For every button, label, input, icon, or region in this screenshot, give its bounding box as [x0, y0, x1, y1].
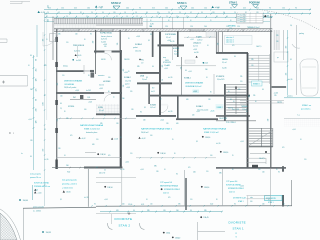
svg-text:3,1 m2: 3,1 m2 [222, 62, 227, 64]
svg-text:120: 120 [131, 109, 134, 111]
svg-text:90: 90 [234, 203, 236, 205]
svg-text:8,5: 8,5 [60, 199, 62, 201]
svg-text:16: 16 [176, 16, 178, 18]
svg-text:16: 16 [146, 199, 148, 201]
svg-text:35: 35 [96, 16, 98, 18]
svg-text:90: 90 [157, 12, 159, 14]
svg-text:8,5: 8,5 [148, 40, 150, 42]
svg-text:134,50: 134,50 [107, 187, 112, 189]
svg-text:120: 120 [190, 26, 193, 28]
svg-text:120: 120 [166, 123, 169, 125]
svg-text:420: 420 [176, 123, 179, 125]
svg-text:3,20 m2: 3,20 m2 [74, 50, 80, 52]
svg-text:16: 16 [135, 12, 137, 14]
svg-text:24: 24 [146, 12, 148, 14]
svg-text:240: 240 [30, 89, 33, 91]
svg-text:240: 240 [217, 43, 219, 46]
svg-text:385: 385 [66, 118, 69, 120]
svg-text:90: 90 [152, 66, 154, 68]
svg-text:90: 90 [94, 203, 96, 205]
svg-text:120: 120 [116, 123, 119, 125]
svg-text:16: 16 [206, 77, 208, 79]
svg-text:120: 120 [30, 140, 33, 142]
svg-text:smocnica: smocnica [98, 75, 105, 77]
svg-text:h=2,65: h=2,65 [222, 68, 227, 70]
svg-text:90: 90 [30, 156, 32, 158]
svg-text:240: 240 [258, 169, 261, 171]
svg-text:120: 120 [58, 148, 61, 150]
svg-text:STAN 1 na: STAN 1 na [302, 104, 312, 107]
svg-text:90: 90 [69, 12, 71, 14]
svg-text:90: 90 [228, 91, 230, 93]
svg-text:240: 240 [36, 109, 38, 112]
svg-text:425: 425 [243, 8, 246, 10]
svg-text:12,4 m2: 12,4 m2 [242, 109, 248, 111]
svg-text:90: 90 [150, 20, 152, 22]
svg-text:+0,05: +0,05 [164, 68, 168, 70]
svg-text:kota gotovog poda: kota gotovog poda [62, 179, 77, 182]
svg-text:+2,88: +2,88 [268, 16, 272, 18]
svg-text:PS: PS [150, 34, 152, 36]
svg-text:120: 120 [206, 171, 209, 173]
svg-text:SOBA 2: SOBA 2 [196, 105, 203, 108]
svg-text:240: 240 [66, 165, 69, 167]
svg-text:HODNIK: HODNIK [103, 81, 111, 83]
svg-text:90: 90 [100, 8, 102, 10]
svg-text:24: 24 [234, 12, 236, 14]
svg-text:8,5: 8,5 [44, 129, 46, 131]
svg-text:90: 90 [120, 137, 122, 139]
svg-text:STAN 3: STAN 3 [253, 83, 259, 86]
svg-text:385: 385 [219, 173, 222, 175]
svg-text:134,40: 134,40 [175, 237, 180, 239]
svg-text:134,50: 134,50 [160, 153, 165, 155]
svg-text:+0,45: +0,45 [274, 93, 279, 95]
svg-text:4,25: 4,25 [141, 204, 144, 206]
svg-text:24,60 m2: 24,60 m2 [141, 132, 149, 134]
svg-text:134,45: 134,45 [203, 217, 208, 219]
svg-text:42: 42 [190, 12, 192, 14]
svg-text:240/120: 240/120 [124, 59, 130, 61]
svg-text:420: 420 [186, 99, 189, 101]
svg-text:425: 425 [123, 69, 125, 72]
svg-text:DVORISTE: DVORISTE [229, 221, 246, 225]
svg-text:435: 435 [43, 39, 45, 42]
svg-text:4,60 m2: 4,60 m2 [229, 191, 235, 193]
svg-text:90: 90 [102, 12, 104, 14]
svg-text:235: 235 [240, 76, 243, 78]
svg-text:120: 120 [156, 171, 159, 173]
svg-text:120: 120 [208, 99, 211, 101]
svg-text:+0,05: +0,05 [193, 49, 197, 51]
svg-text:+0,05: +0,05 [140, 169, 144, 171]
svg-text:16: 16 [126, 16, 128, 18]
svg-text:KUPA.: KUPA. [98, 106, 103, 109]
svg-text:KUPAONICA: KUPAONICA [100, 32, 112, 35]
svg-text:134,50: 134,50 [205, 137, 210, 139]
svg-text:35: 35 [196, 16, 198, 18]
svg-text:90: 90 [64, 111, 66, 113]
svg-text:120: 120 [238, 89, 241, 91]
svg-text:HODNIK: HODNIK [173, 48, 180, 50]
svg-text:24: 24 [166, 16, 168, 18]
svg-text:134,35: 134,35 [46, 232, 51, 234]
svg-text:STAN 2: STAN 2 [111, 1, 121, 5]
svg-text:120: 120 [117, 43, 119, 46]
svg-text:90: 90 [223, 12, 225, 14]
svg-text:h=2,65: h=2,65 [174, 54, 179, 56]
svg-text:24: 24 [156, 16, 158, 18]
svg-text:h=2,65: h=2,65 [168, 77, 173, 79]
svg-text:betonske ploce: betonske ploce [86, 131, 97, 134]
svg-text:240: 240 [204, 26, 207, 28]
svg-text:STUBISTE: STUBISTE [163, 62, 171, 64]
svg-text:PRIZEMLJA 265 cm: PRIZEMLJA 265 cm [34, 185, 51, 188]
svg-text:90: 90 [108, 91, 110, 93]
svg-text:120: 120 [212, 12, 215, 14]
svg-text:ulaz: ulaz [250, 197, 253, 199]
svg-text:240: 240 [149, 26, 152, 28]
svg-text:420: 420 [122, 203, 125, 205]
svg-text:+0,05: +0,05 [188, 71, 192, 73]
svg-text:4,2 m2: 4,2 m2 [193, 46, 198, 48]
svg-text:26,80 m2 parket: 26,80 m2 parket [64, 86, 77, 89]
svg-text:90: 90 [30, 55, 32, 57]
svg-text:90: 90 [36, 99, 38, 101]
svg-text:k.c. 1325/2: k.c. 1325/2 [33, 210, 41, 212]
svg-text:134,40: 134,40 [23, 200, 28, 202]
svg-text:425: 425 [74, 8, 77, 10]
svg-text:+0,05: +0,05 [104, 199, 108, 201]
svg-text:90: 90 [60, 103, 62, 105]
svg-text:120: 120 [150, 203, 153, 205]
svg-text:+0,02: +0,02 [141, 138, 145, 140]
svg-text:16: 16 [233, 101, 235, 103]
svg-text:PODRUM: PODRUM [249, 1, 260, 4]
svg-text:120: 120 [282, 8, 285, 10]
svg-text:SPREM.: SPREM. [68, 106, 75, 108]
svg-text:10,2 m2: 10,2 m2 [150, 107, 156, 109]
svg-text:235: 235 [274, 95, 277, 97]
svg-text:16x17,5/28: 16x17,5/28 [232, 109, 239, 111]
svg-text:h=2,65: h=2,65 [84, 197, 89, 199]
svg-text:120: 120 [113, 12, 116, 14]
svg-text:420: 420 [116, 210, 119, 212]
svg-text:+0,05: +0,05 [28, 119, 32, 121]
svg-text:SPREMISTE STAN 2: SPREMISTE STAN 2 [164, 188, 180, 191]
svg-text:90: 90 [217, 8, 219, 10]
svg-text:90: 90 [230, 99, 232, 101]
svg-text:240: 240 [165, 8, 168, 10]
svg-text:120: 120 [237, 26, 240, 28]
svg-text:h=2,1: h=2,1 [151, 91, 155, 93]
svg-text:420 x 90: 420 x 90 [99, 172, 105, 174]
svg-text:+0,02: +0,02 [114, 139, 118, 141]
svg-text:134,4: 134,4 [166, 233, 170, 235]
svg-text:2,4 m2: 2,4 m2 [142, 79, 147, 81]
svg-text:STAN 2 24,60 m2: STAN 2 24,60 m2 [84, 128, 101, 131]
svg-text:120: 120 [123, 85, 125, 88]
svg-text:STAN 1: STAN 1 [229, 1, 238, 4]
svg-text:35: 35 [104, 115, 106, 117]
svg-text:12: 12 [186, 16, 188, 18]
svg-text:240: 240 [262, 203, 265, 205]
svg-text:5,0: 5,0 [290, 25, 292, 27]
svg-text:+0,00: +0,00 [37, 192, 41, 194]
svg-text:24: 24 [47, 12, 49, 14]
svg-text:35: 35 [268, 199, 270, 201]
svg-text:120: 120 [204, 8, 207, 10]
svg-text:90/120: 90/120 [101, 59, 106, 61]
svg-text:STAN 1 24,6 m2: STAN 1 24,6 m2 [204, 131, 220, 134]
svg-text:= 134,55 mnm: = 134,55 mnm [62, 187, 73, 189]
svg-text:90: 90 [295, 8, 297, 10]
svg-text:8,5: 8,5 [146, 77, 148, 79]
svg-text:90: 90 [210, 92, 212, 94]
svg-text:35: 35 [128, 71, 130, 73]
svg-text:5,6 m2: 5,6 m2 [99, 85, 104, 87]
svg-text:STUBISTE: STUBISTE [216, 76, 225, 78]
svg-text:425: 425 [70, 135, 73, 137]
svg-text:240: 240 [193, 172, 196, 174]
svg-text:425: 425 [108, 155, 111, 157]
svg-text:prozora 90 cm: prozora 90 cm [30, 176, 41, 179]
svg-text:90: 90 [255, 101, 257, 103]
svg-text:240: 240 [176, 210, 179, 212]
svg-text:24: 24 [179, 12, 181, 14]
svg-text:SOBA 1: SOBA 1 [196, 36, 202, 39]
svg-text:+0,05: +0,05 [99, 88, 103, 90]
svg-text:24: 24 [168, 12, 170, 14]
svg-text:30/30: 30/30 [165, 60, 169, 62]
svg-text:425: 425 [168, 197, 171, 199]
svg-text:90: 90 [176, 173, 178, 175]
svg-text:11,8 m2: 11,8 m2 [197, 40, 202, 42]
svg-text:120: 120 [60, 96, 63, 98]
svg-text:12,2 m2: 12,2 m2 [125, 80, 131, 82]
svg-text:240: 240 [93, 41, 95, 44]
svg-text:134,50: 134,50 [223, 152, 228, 154]
svg-text:90: 90 [232, 169, 234, 171]
svg-text:385: 385 [137, 66, 140, 68]
svg-text:90: 90 [201, 12, 203, 14]
svg-text:90: 90 [140, 112, 142, 114]
svg-text:240: 240 [210, 155, 213, 157]
svg-text:235: 235 [286, 73, 288, 76]
svg-text:+0,05: +0,05 [240, 141, 244, 143]
svg-text:8,5: 8,5 [196, 141, 198, 143]
svg-text:385: 385 [204, 210, 207, 212]
svg-text:12,00: 12,00 [128, 204, 132, 206]
svg-text:2,1: 2,1 [60, 108, 62, 110]
svg-text:1,9: 1,9 [141, 62, 143, 64]
svg-text:h=2,65: h=2,65 [76, 60, 81, 62]
svg-text:90: 90 [133, 210, 135, 212]
svg-text:12,4 m2 parket: 12,4 m2 parket [197, 108, 209, 111]
svg-text:90: 90 [174, 153, 176, 155]
svg-text:h=2,65: h=2,65 [216, 143, 221, 145]
svg-text:385: 385 [100, 123, 103, 125]
svg-text:90: 90 [178, 8, 180, 10]
svg-text:6,2 m2: 6,2 m2 [174, 51, 179, 53]
svg-text:STAN 2: STAN 2 [119, 224, 131, 228]
svg-text:+0,02: +0,02 [125, 162, 129, 164]
svg-text:235: 235 [253, 95, 256, 97]
svg-text:435: 435 [48, 5, 50, 8]
svg-text:560: 560 [43, 149, 45, 152]
svg-text:16: 16 [246, 111, 248, 113]
svg-text:425: 425 [232, 45, 235, 47]
svg-text:425: 425 [57, 83, 59, 86]
svg-text:parket: parket [133, 46, 138, 49]
svg-text:81: 81 [116, 16, 118, 18]
svg-text:90: 90 [230, 8, 232, 10]
svg-text:385: 385 [154, 165, 157, 167]
svg-text:SOBA 1: SOBA 1 [135, 43, 143, 46]
svg-text:16: 16 [124, 12, 126, 14]
svg-text:16: 16 [164, 169, 166, 171]
svg-text:h=2,65: h=2,65 [288, 79, 293, 81]
svg-text:+0,05: +0,05 [190, 39, 194, 41]
svg-text:90: 90 [162, 79, 164, 81]
svg-text:25: 25 [104, 170, 106, 172]
svg-text:120: 120 [262, 172, 265, 174]
svg-text:120: 120 [36, 121, 38, 124]
svg-text:16: 16 [226, 16, 228, 18]
svg-text:35: 35 [267, 12, 269, 14]
svg-text:385: 385 [58, 34, 61, 36]
svg-text:h=2,65: h=2,65 [168, 111, 173, 113]
svg-text:+0,05: +0,05 [196, 111, 200, 113]
svg-text:90: 90 [90, 34, 92, 36]
svg-text:425: 425 [282, 147, 285, 149]
svg-text:120: 120 [190, 199, 193, 201]
svg-text:425: 425 [36, 89, 38, 92]
svg-text:240: 240 [122, 98, 125, 100]
svg-text:90: 90 [269, 8, 271, 10]
svg-text:+0,02: +0,02 [160, 120, 164, 122]
svg-text:4,1 m2: 4,1 m2 [99, 110, 104, 112]
svg-text:120: 120 [130, 91, 133, 93]
svg-text:granica parcele: granica parcele [33, 207, 44, 209]
svg-text:16: 16 [64, 155, 66, 157]
svg-text:385: 385 [178, 203, 181, 205]
svg-text:I KUHINJA 26,8 m2: I KUHINJA 26,8 m2 [185, 85, 201, 88]
svg-text:16: 16 [28, 65, 30, 67]
svg-text:STAN 1: STAN 1 [233, 227, 245, 231]
svg-text:90: 90 [234, 56, 236, 58]
svg-text:24: 24 [86, 16, 88, 18]
svg-text:kuhinja: kuhinja [63, 65, 68, 67]
svg-text:SOBA 3: SOBA 3 [150, 103, 156, 106]
svg-text:120: 120 [75, 34, 78, 36]
svg-text:240: 240 [108, 77, 111, 79]
svg-text:90: 90 [168, 20, 170, 22]
svg-text:+0,05: +0,05 [126, 87, 130, 89]
svg-text:12: 12 [56, 16, 58, 18]
svg-text:5,40: 5,40 [210, 204, 213, 206]
svg-text:4,60 m2: 4,60 m2 [163, 192, 169, 194]
svg-text:160: 160 [87, 8, 90, 10]
svg-text:9,60: 9,60 [67, 172, 70, 174]
svg-text:90: 90 [262, 89, 264, 91]
svg-text:90: 90 [216, 199, 218, 201]
svg-text:SOBA 1: SOBA 1 [184, 77, 191, 80]
svg-text:16x17,5: 16x17,5 [259, 158, 265, 160]
svg-text:235: 235 [251, 59, 254, 61]
svg-text:235: 235 [276, 35, 279, 37]
svg-text:500: 500 [286, 46, 288, 49]
svg-text:120: 120 [62, 75, 65, 77]
svg-text:STAN 2: STAN 2 [217, 106, 223, 109]
svg-text:315: 315 [36, 69, 38, 72]
svg-text:35: 35 [283, 203, 285, 205]
svg-text:120: 120 [240, 81, 243, 83]
svg-text:90: 90 [84, 39, 86, 41]
svg-text:240: 240 [250, 201, 253, 203]
svg-text:120: 120 [61, 8, 64, 10]
svg-text:90: 90 [190, 20, 192, 22]
svg-text:90: 90 [139, 8, 141, 10]
svg-text:120: 120 [96, 139, 99, 141]
svg-text:35: 35 [232, 155, 234, 157]
svg-text:315: 315 [180, 67, 182, 70]
svg-text:420: 420 [92, 144, 95, 146]
svg-text:120: 120 [163, 210, 166, 212]
svg-text:3,2 m2: 3,2 m2 [166, 37, 171, 39]
svg-text:D: D [9, 131, 11, 135]
svg-text:parcelama: parcelama [301, 109, 311, 111]
svg-text:DNEVNI BORAVAK: DNEVNI BORAVAK [64, 80, 83, 83]
svg-text:granica: granica [287, 95, 293, 98]
svg-text:h=2,65: h=2,65 [194, 52, 199, 54]
svg-text:h=2,65: h=2,65 [101, 41, 106, 43]
svg-text:35: 35 [128, 38, 130, 40]
svg-text:h=2,65: h=2,65 [120, 169, 125, 171]
svg-text:240: 240 [84, 109, 87, 111]
svg-text:120: 120 [48, 19, 50, 22]
svg-text:16x17,5/28: 16x17,5/28 [219, 118, 227, 120]
svg-text:90: 90 [230, 20, 232, 22]
svg-text:120: 120 [66, 42, 69, 44]
svg-text:+0,05: +0,05 [240, 186, 244, 188]
svg-text:24: 24 [66, 16, 68, 18]
svg-text:h=2,65: h=2,65 [170, 41, 175, 43]
svg-text:385: 385 [147, 210, 150, 212]
svg-text:16: 16 [300, 139, 302, 141]
svg-text:8,5: 8,5 [144, 107, 146, 109]
svg-text:24: 24 [91, 12, 93, 14]
svg-text:240: 240 [191, 8, 194, 10]
svg-text:81: 81 [80, 12, 82, 14]
svg-text:+0,02: +0,02 [81, 138, 85, 140]
svg-text:h=2,65: h=2,65 [86, 90, 91, 92]
svg-text:10,5 m2: 10,5 m2 [135, 50, 141, 52]
svg-text:+0,00: +0,00 [204, 63, 208, 65]
svg-text:90: 90 [190, 210, 192, 212]
svg-text:12: 12 [136, 16, 138, 18]
svg-text:+0,05: +0,05 [292, 129, 296, 131]
svg-text:425: 425 [222, 79, 225, 81]
svg-text:120: 120 [130, 153, 133, 155]
svg-text:DVORISTE: DVORISTE [115, 217, 133, 221]
svg-text:+0,05: +0,05 [210, 110, 214, 112]
svg-text:240: 240 [143, 120, 146, 122]
svg-text:1200: 1200 [43, 102, 45, 106]
svg-text:4,25 m2: 4,25 m2 [101, 39, 107, 41]
svg-text:90: 90 [278, 172, 280, 174]
svg-text:134,50: 134,50 [100, 154, 105, 156]
